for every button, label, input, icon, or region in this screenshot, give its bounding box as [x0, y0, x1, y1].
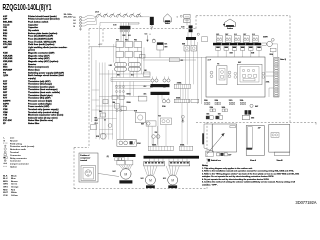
svg-text:Fuse (T 3.15A / 250V) (A1P): Fuse (T 3.15A / 250V) (A1P)	[28, 40, 56, 43]
svg-text:Thermistor (heat exchanger): Thermistor (heat exchanger)	[28, 88, 58, 91]
svg-text:Q1DI: Q1DI	[95, 12, 99, 14]
svg-text:Red: Red	[11, 189, 16, 191]
svg-text:R3T: R3T	[3, 86, 8, 88]
svg-text:Y1S: Y1S	[3, 117, 8, 119]
svg-text:1. This wiring diagram only ap: 1. This wiring diagram only applies to t…	[202, 167, 253, 170]
svg-text:Field fuse (earth) (option): Field fuse (earth) (option)	[28, 43, 55, 46]
svg-text:PS: PS	[217, 63, 219, 65]
svg-text:BRN: BRN	[3, 181, 8, 183]
svg-text:GRN: GRN	[3, 184, 8, 186]
svg-text:BRN: BRN	[123, 35, 126, 37]
svg-text:F1U: F1U	[116, 40, 119, 42]
svg-text:R5T: R5T	[3, 92, 8, 94]
svg-text:BLK: BLK	[3, 175, 8, 177]
svg-text:Pressure switch (high): Pressure switch (high)	[28, 102, 52, 105]
svg-text:Terminal strip (power supply): Terminal strip (power supply)	[28, 108, 59, 111]
svg-text:F2U: F2U	[125, 40, 128, 42]
svg-text:4. Do not operate the unit by: 4. Do not operate the unit by short-circ…	[202, 178, 270, 181]
svg-text:BS1: BS1	[207, 114, 210, 116]
svg-text:RED: RED	[117, 75, 120, 77]
svg-text:V1R: V1R	[3, 106, 8, 108]
svg-text:Field wiring: Field wiring	[10, 143, 23, 145]
svg-text:Black: Black	[11, 175, 18, 177]
svg-text:ORG: ORG	[3, 187, 8, 189]
svg-text:2. Refer to the installation m: 2. Refer to the installation manual and …	[202, 170, 294, 173]
svg-text:Dip switch: Dip switch	[28, 29, 40, 32]
svg-text:Option: Option	[10, 165, 18, 168]
svg-text:Connector: Connector	[10, 160, 21, 163]
svg-text:Electronic expansion valve (ma: Electronic expansion valve (main)	[28, 114, 64, 117]
svg-text:Protective earth (screw): Protective earth (screw)	[10, 145, 35, 148]
svg-text:Capacitor: Capacitor	[28, 26, 38, 29]
svg-text:RED: RED	[3, 189, 8, 191]
svg-text:M: M	[149, 179, 152, 183]
svg-text:Fuse (31.5A/250V) (A2P): Fuse (31.5A/250V) (A2P)	[28, 37, 53, 40]
svg-text:E1H: E1H	[3, 33, 8, 35]
svg-text:View A: View A	[250, 159, 257, 162]
svg-text:3D077192A: 3D077192A	[296, 200, 317, 205]
svg-text:L3: L3	[74, 23, 76, 25]
svg-text:Motor (fan): Motor (fan)	[28, 68, 40, 71]
svg-text:L1: L1	[74, 17, 76, 19]
svg-text:M: M	[124, 173, 127, 177]
svg-text:S1NPH: S1NPH	[263, 37, 268, 39]
svg-text:BLK: BLK	[165, 44, 168, 46]
svg-text:C1-C3: C1-C3	[3, 24, 10, 26]
svg-text:Relay connector: Relay connector	[10, 157, 27, 160]
svg-text:Y1E: Y1E	[3, 115, 8, 117]
svg-text:K3R,K4R: K3R,K4R	[3, 57, 13, 60]
svg-text:Switching power supply (A1P,A2: Switching power supply (A1P,A2P)	[28, 71, 64, 74]
svg-text:Magnetic relay (A1P) (option): Magnetic relay (A1P) (option)	[28, 60, 59, 63]
svg-text:Magnetic relay (A2P): Magnetic relay (A2P)	[28, 57, 50, 60]
svg-text:M: M	[171, 179, 174, 183]
svg-text:+: +	[150, 34, 151, 36]
svg-text:F3U: F3U	[134, 40, 137, 42]
svg-text:Neutral: Neutral	[10, 139, 18, 142]
svg-text:Printed circuit board (main): Printed circuit board (main)	[28, 15, 57, 18]
svg-text:3. Refer to the "Wiring diagra: 3. Refer to the "Wiring diagram sticker"…	[202, 172, 299, 175]
svg-text:F3U-F6U: F3U-F6U	[3, 41, 12, 43]
svg-text:Thermistor (heat exch. middle): Thermistor (heat exch. middle)	[28, 91, 60, 94]
svg-text:BLU: BLU	[3, 178, 8, 180]
svg-text:White: White	[11, 191, 18, 194]
svg-text:Thermistor (suction pipe): Thermistor (suction pipe)	[28, 85, 55, 88]
svg-text:Switch box: Switch box	[211, 159, 222, 162]
svg-text:R1T: R1T	[3, 81, 8, 83]
svg-text:DS1: DS1	[218, 114, 221, 116]
svg-text:BLU: BLU	[131, 75, 134, 77]
svg-text:F2U: F2U	[3, 38, 8, 40]
svg-text:Thermistor (air) (A1P): Thermistor (air) (A1P)	[28, 80, 51, 83]
svg-text:Note 2): Note 2)	[280, 58, 286, 61]
svg-text:BS1-BS4: BS1-BS4	[3, 21, 13, 24]
svg-text:Push button switch: Push button switch	[28, 21, 49, 24]
svg-text:Thermistor (discharge): Thermistor (discharge)	[28, 83, 52, 86]
svg-text:Bottom plate heater (option): Bottom plate heater (option)	[28, 32, 58, 35]
svg-text:Q1DI: Q1DI	[3, 75, 8, 77]
svg-text:RZQG100-140L(8)Y1: RZQG100-140L(8)Y1	[3, 3, 52, 12]
svg-text:Noise filter (ferrite core): Noise filter (ferrite core)	[28, 119, 53, 122]
svg-text:switches: "OFF".: switches: "OFF".	[202, 183, 218, 186]
svg-text:Green: Green	[11, 184, 18, 186]
svg-text:terminal: terminal	[80, 159, 87, 162]
svg-text:M1C: M1C	[3, 67, 8, 69]
svg-text:Reactor: Reactor	[28, 63, 36, 66]
svg-text:Y1S: Y1S	[158, 116, 161, 118]
svg-text:Motor (compressor): Motor (compressor)	[28, 66, 49, 69]
svg-text:A2P: A2P	[3, 18, 8, 21]
svg-text:WHT: WHT	[3, 192, 9, 194]
svg-text:S1PH: S1PH	[3, 103, 9, 105]
svg-text:supply): supply)	[28, 78, 36, 80]
svg-text:HAP: HAP	[3, 46, 8, 49]
svg-text:Blue: Blue	[11, 178, 16, 180]
svg-text:View B: View B	[277, 160, 284, 162]
svg-text:Light emitting diode (service: Light emitting diode (service monitor-	[28, 46, 68, 49]
svg-text:Pressure sensor (high): Pressure sensor (high)	[28, 101, 52, 103]
svg-text:Fuse (31.5A/250V) (A2P): Fuse (31.5A/250V) (A2P)	[28, 35, 53, 38]
svg-text:Z1C-Z9C: Z1C-Z9C	[3, 120, 12, 122]
svg-text:Yellow: Yellow	[11, 195, 18, 197]
svg-text:green): green)	[28, 50, 35, 52]
svg-text:Noiseless earth: Noiseless earth	[10, 148, 27, 151]
svg-text:K5R,K6R: K5R,K6R	[3, 61, 13, 63]
svg-text:R6T: R6T	[3, 95, 8, 97]
svg-text:R2T: R2T	[3, 84, 8, 86]
svg-text:R10T: R10T	[95, 120, 99, 122]
svg-text:M2F: M2F	[163, 178, 166, 180]
svg-text:L2: L2	[74, 20, 76, 22]
svg-text:Capacitor: Capacitor	[28, 23, 38, 26]
svg-text:Notes: Notes	[202, 164, 209, 167]
svg-text:switches. Do not operate the u: switches. Do not operate the unit by sho…	[202, 175, 274, 178]
svg-text:Earth leakage circuit breaker: Earth leakage circuit breaker (field	[28, 74, 64, 77]
svg-text:X2M: X2M	[3, 112, 8, 114]
svg-text:Jumper connector: Jumper connector	[10, 163, 29, 166]
svg-text:Magnetic relay (A1P): Magnetic relay (A1P)	[28, 54, 50, 57]
svg-text:WHT: WHT	[165, 47, 168, 49]
svg-text:Thermistor (liquid pipe): Thermistor (liquid pipe)	[28, 94, 53, 97]
svg-text:C1-3: C1-3	[95, 123, 98, 125]
svg-text:380-415V: 380-415V	[64, 16, 74, 19]
svg-text:L1R: L1R	[3, 64, 8, 66]
svg-text:Brown: Brown	[11, 181, 18, 183]
svg-text:S1NPH: S1NPH	[3, 101, 11, 103]
svg-text:K1R,K2R: K1R,K2R	[3, 55, 13, 57]
svg-text:R4T: R4T	[3, 88, 8, 91]
svg-text:Z5C: Z5C	[181, 60, 184, 62]
svg-text:Y1E: Y1E	[155, 132, 158, 134]
svg-text:M1F: M1F	[141, 178, 144, 180]
svg-text:F7U,F8U: F7U,F8U	[3, 44, 12, 46]
svg-text:Printed circuit board (inverte: Printed circuit board (inverter)	[28, 18, 60, 21]
svg-text:C3: C3	[104, 120, 106, 122]
svg-text:C51: C51	[145, 34, 148, 36]
svg-text:Magnetic contactor (A2P): Magnetic contactor (A2P)	[28, 52, 55, 55]
svg-text:F1U: F1U	[3, 36, 8, 38]
svg-text:Thermistor (fin) (A2P): Thermistor (fin) (A2P)	[28, 97, 51, 100]
svg-text:K1M: K1M	[3, 53, 8, 55]
svg-text:M1F,M2F: M1F,M2F	[3, 69, 13, 71]
svg-text:Power module (A2P): Power module (A2P)	[28, 105, 50, 108]
svg-text:K2R: K2R	[141, 124, 144, 126]
svg-text:A1P: A1P	[3, 15, 8, 18]
svg-text:Solenoid valve (4 way valve): Solenoid valve (4 way valve)	[28, 116, 58, 119]
svg-text:Terminal strip (control wiring: Terminal strip (control wiring)	[28, 111, 59, 114]
svg-text:Orange: Orange	[11, 187, 19, 189]
svg-text:X1M: X1M	[3, 109, 8, 111]
svg-text:A2P: A2P	[99, 43, 103, 46]
svg-text:Noise filter: Noise filter	[28, 122, 39, 125]
svg-text:R7T: R7T	[3, 98, 8, 100]
svg-text:Connector: Connector	[10, 154, 21, 157]
svg-text:5. Confirm the method of setti: 5. Confirm the method of setting the sel…	[202, 181, 295, 184]
svg-text:Terminal: Terminal	[10, 152, 19, 154]
